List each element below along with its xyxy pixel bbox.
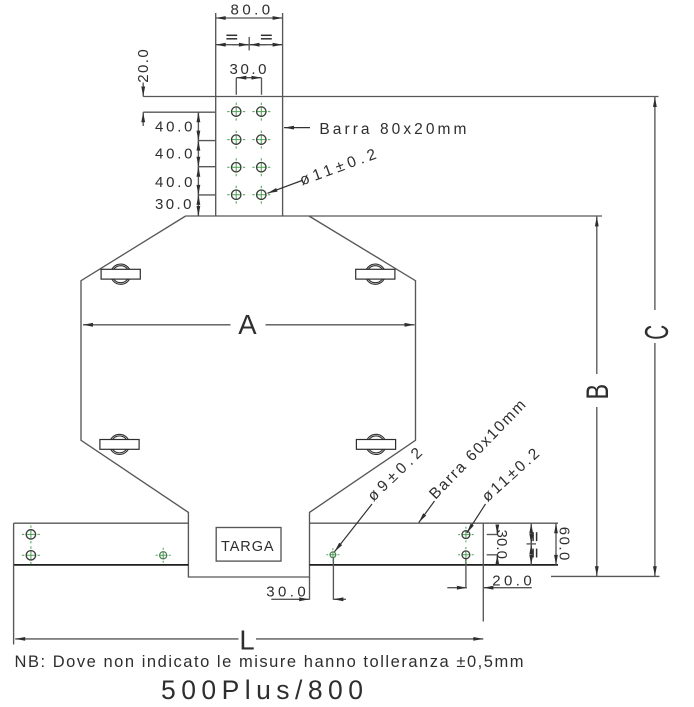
svg-text:30.0: 30.0 bbox=[266, 583, 306, 600]
svg-text:40.0: 40.0 bbox=[155, 174, 193, 191]
svg-text:30.0: 30.0 bbox=[155, 196, 192, 213]
svg-text:A: A bbox=[238, 309, 257, 340]
svg-text:ø11±0.2: ø11±0.2 bbox=[298, 146, 379, 189]
svg-text:40.0: 40.0 bbox=[155, 119, 193, 136]
svg-text:B: B bbox=[580, 384, 615, 400]
svg-text:20.0: 20.0 bbox=[492, 573, 532, 590]
svg-text:Barra 60x10mm: Barra 60x10mm bbox=[426, 397, 529, 503]
svg-text:60.0: 60.0 bbox=[556, 527, 573, 561]
svg-text:80.0: 80.0 bbox=[231, 2, 270, 19]
svg-text:30.0: 30.0 bbox=[493, 530, 510, 560]
svg-text:20.0: 20.0 bbox=[135, 49, 152, 83]
svg-text:Barra 80x20mm: Barra 80x20mm bbox=[319, 121, 466, 138]
svg-text:NB: Dove non indicato le misur: NB: Dove non indicato le misure hanno to… bbox=[15, 653, 524, 671]
svg-text:L: L bbox=[239, 624, 254, 655]
svg-text:30.0: 30.0 bbox=[230, 61, 267, 78]
svg-text:ø11±0.2: ø11±0.2 bbox=[479, 445, 543, 505]
svg-text:40.0: 40.0 bbox=[155, 145, 193, 162]
svg-text:TARGA: TARGA bbox=[221, 539, 274, 555]
svg-text:C: C bbox=[638, 325, 675, 340]
svg-text:500Plus/800: 500Plus/800 bbox=[161, 675, 363, 705]
